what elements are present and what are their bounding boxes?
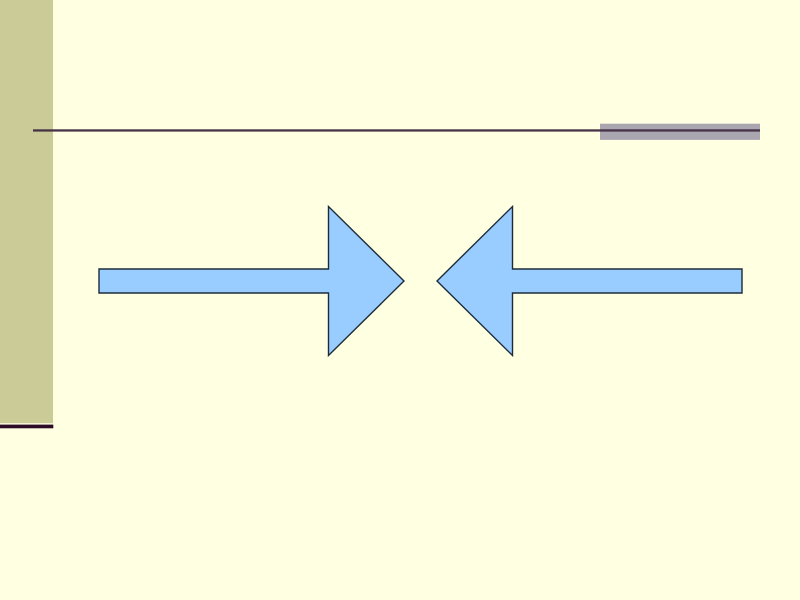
left-pointing arrow <box>437 207 742 356</box>
gray title-area bar <box>600 124 760 140</box>
right-pointing arrow <box>99 207 404 356</box>
left sidebar bar <box>0 0 53 423</box>
horizontal title rule <box>33 129 760 131</box>
sidebar bottom accent line <box>0 425 53 429</box>
